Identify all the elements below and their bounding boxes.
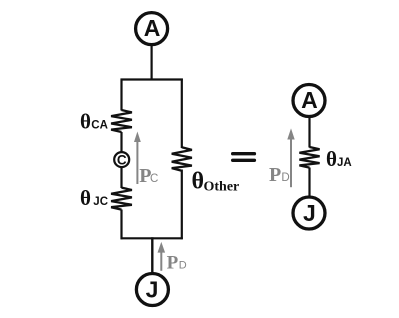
svg-text:D: D [179, 259, 187, 271]
arrow PC [134, 132, 141, 185]
label thetaJC [80, 186, 108, 210]
arrow PD right [287, 128, 294, 187]
label thetaJA [326, 147, 352, 171]
resistor thetaJC [111, 188, 132, 210]
svg-text:J: J [303, 200, 316, 226]
label PD left [167, 252, 187, 273]
svg-text:A: A [144, 15, 161, 41]
wire right branch upper [181, 79, 183, 149]
svg-text:Other: Other [204, 179, 240, 194]
svg-text:θ: θ [326, 147, 337, 171]
node C [114, 152, 129, 167]
equals sign [233, 154, 255, 161]
node A right [293, 85, 325, 117]
node J [136, 274, 168, 306]
wire A to top rail [151, 45, 153, 81]
svg-text:CA: CA [91, 120, 108, 132]
wire top rail [121, 78, 183, 80]
label PD right [269, 164, 290, 186]
resistor thetaJA [299, 147, 319, 168]
resistor thetaCA [111, 110, 132, 132]
wire node C to thetaJC [120, 167, 122, 188]
wire thetaOther to bottom rail [181, 170, 183, 240]
wire thetaJC to bottom rail [120, 210, 122, 240]
resistor thetaOther [172, 147, 192, 170]
svg-text:P: P [269, 164, 281, 186]
wire thetaJA to J [308, 168, 310, 197]
svg-text:D: D [281, 172, 289, 184]
label thetaCA [80, 110, 108, 134]
node J right [293, 197, 325, 229]
wire left branch upper [120, 79, 122, 111]
svg-text:θ: θ [80, 186, 91, 210]
label PC [139, 165, 158, 187]
svg-text:P: P [167, 252, 179, 273]
svg-text:A: A [301, 87, 318, 113]
wire bottom rail [121, 237, 183, 239]
svg-text:JC: JC [93, 196, 108, 208]
svg-text:θ: θ [80, 110, 91, 134]
label thetaOther [192, 169, 240, 195]
svg-text:JA: JA [337, 157, 352, 169]
svg-text:J: J [146, 277, 159, 303]
svg-text:C: C [117, 152, 127, 167]
wire A to thetaJA [308, 117, 310, 148]
wire thetaCA to node C [120, 132, 122, 153]
wire bottom rail to J [151, 237, 153, 273]
svg-text:C: C [150, 173, 158, 185]
arrow PD left [158, 242, 166, 271]
svg-text:θ: θ [192, 169, 205, 195]
node A [136, 13, 168, 45]
